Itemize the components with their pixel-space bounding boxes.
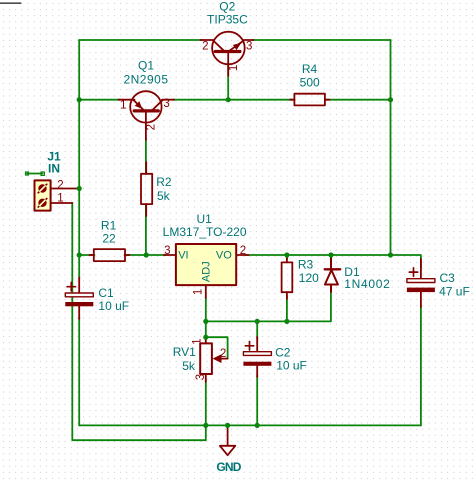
capacitor C3 bbox=[407, 259, 435, 307]
wire left vertical below C1 bbox=[78, 317, 80, 425]
wire left vertical rail bbox=[78, 40, 80, 279]
wire D1 top stub bbox=[330, 255, 332, 260]
wire collector rail y99.7 bbox=[79, 99, 120, 101]
wire Q1 base down to VI node bbox=[145, 138, 147, 174]
junction R3 bottom bbox=[284, 319, 289, 324]
wire R1 row bbox=[79, 254, 94, 256]
svg-text:Q1: Q1 bbox=[138, 59, 154, 73]
junction Q2 base bbox=[226, 97, 231, 102]
wire right vertical x390 bbox=[390, 40, 392, 255]
junction bottom GND bbox=[225, 423, 230, 428]
junction C2 top bbox=[255, 319, 260, 324]
wire C2 top lead bbox=[256, 321, 258, 339]
svg-text:1N4002: 1N4002 bbox=[344, 277, 390, 291]
junction bottom C2 bbox=[255, 423, 260, 428]
svg-text:3: 3 bbox=[163, 98, 169, 110]
junction bottom RV1 bbox=[203, 423, 208, 428]
transistor Q1 2N2905 bbox=[119, 91, 175, 140]
regulator U1 LM317 bbox=[164, 244, 249, 298]
potentiometer RV1 bbox=[200, 338, 227, 382]
resistor R2 bbox=[141, 162, 152, 216]
wire J1 pin1 loop bbox=[72, 203, 206, 440]
svg-text:10 uF: 10 uF bbox=[98, 299, 129, 313]
capacitor C2 bbox=[243, 337, 271, 377]
capacitor C1 bbox=[65, 278, 93, 320]
junction RV1 top bbox=[203, 335, 208, 340]
svg-text:U1: U1 bbox=[197, 212, 213, 226]
svg-text:R2: R2 bbox=[156, 175, 172, 189]
svg-text:VI: VI bbox=[178, 249, 188, 261]
svg-text:2: 2 bbox=[202, 40, 208, 52]
svg-text:22: 22 bbox=[102, 232, 116, 246]
wire dangling stub near J1 bbox=[27, 173, 43, 175]
svg-text:Q2: Q2 bbox=[219, 0, 235, 14]
junction R4 right bbox=[388, 97, 393, 102]
junction D1 top bbox=[328, 252, 333, 257]
svg-text:TIP35C: TIP35C bbox=[207, 13, 248, 27]
wire ADJ vertical bbox=[205, 297, 207, 340]
svg-text:VO: VO bbox=[216, 249, 232, 261]
junction R1 right / VI bbox=[144, 252, 149, 257]
svg-text:C3: C3 bbox=[440, 271, 456, 285]
svg-text:120: 120 bbox=[299, 271, 319, 285]
svg-text:IN: IN bbox=[48, 161, 60, 175]
svg-text:3: 3 bbox=[195, 374, 207, 380]
wire bottom rail bbox=[79, 424, 421, 426]
wire top rail bbox=[79, 39, 202, 41]
junction R1 left bbox=[77, 252, 82, 257]
wire Q2 base down bbox=[227, 64, 229, 100]
sheet frame fragment bbox=[0, 2, 21, 4]
wire C3 top corner bbox=[391, 255, 421, 268]
svg-text:3: 3 bbox=[246, 40, 252, 52]
svg-text:GND: GND bbox=[216, 460, 241, 474]
junction J1 pin2 bbox=[77, 186, 82, 191]
junction ADJ row left bbox=[203, 319, 208, 324]
svg-text:1: 1 bbox=[120, 100, 126, 112]
svg-text:C2: C2 bbox=[275, 345, 291, 359]
svg-text:1: 1 bbox=[193, 289, 205, 295]
svg-text:5k: 5k bbox=[182, 359, 196, 373]
transistor Q2 TIP35C bbox=[201, 32, 254, 76]
svg-text:500: 500 bbox=[300, 75, 320, 89]
svg-text:2: 2 bbox=[240, 245, 246, 257]
resistor R1 bbox=[90, 249, 130, 261]
junction left/collector bbox=[77, 97, 82, 102]
svg-text:1: 1 bbox=[228, 65, 240, 71]
svg-text:R3: R3 bbox=[298, 258, 314, 272]
wire RV1 bottom lead bbox=[205, 380, 207, 425]
wire VI lead joining bbox=[146, 254, 166, 256]
diode D1 bbox=[325, 258, 341, 292]
wire output rail y255 bbox=[246, 254, 391, 256]
svg-text:47 uF: 47 uF bbox=[439, 285, 470, 299]
svg-text:5k: 5k bbox=[157, 189, 171, 203]
wire C2 bottom lead bbox=[256, 375, 258, 425]
wire RV1 wiper loop bbox=[206, 337, 228, 358]
wire right vertical to C3 bottom bbox=[420, 306, 422, 425]
svg-text:R1: R1 bbox=[101, 218, 117, 232]
svg-text:2N2905: 2N2905 bbox=[123, 72, 168, 86]
svg-text:1: 1 bbox=[57, 192, 63, 204]
junction R3 top bbox=[284, 252, 289, 257]
svg-text:ADJ: ADJ bbox=[201, 261, 213, 282]
resistor R3 bbox=[282, 256, 293, 299]
svg-text:2: 2 bbox=[220, 348, 226, 360]
wire R3 bottom lead bbox=[286, 296, 288, 321]
svg-text:LM317_TO-220: LM317_TO-220 bbox=[163, 225, 247, 239]
ground symbol bbox=[220, 425, 235, 455]
svg-text:RV1: RV1 bbox=[173, 345, 196, 359]
wire ADJ row y321.4 bbox=[206, 290, 331, 321]
svg-text:2: 2 bbox=[57, 179, 63, 191]
svg-text:10 uF: 10 uF bbox=[276, 358, 307, 372]
connector J1 bbox=[35, 180, 80, 210]
svg-text:2: 2 bbox=[146, 124, 158, 130]
svg-text:R4: R4 bbox=[302, 62, 318, 76]
svg-text:1: 1 bbox=[192, 338, 204, 344]
junction output/R4 vertical bbox=[388, 252, 393, 257]
svg-text:3: 3 bbox=[164, 245, 170, 257]
svg-text:C1: C1 bbox=[98, 286, 114, 300]
resistor R4 bbox=[290, 94, 330, 106]
wire R3 top lead bbox=[286, 255, 288, 259]
